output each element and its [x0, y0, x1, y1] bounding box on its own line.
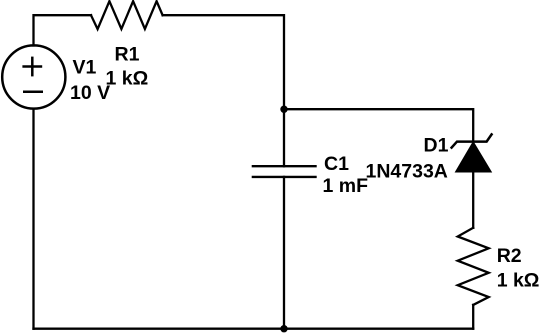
- svg-text:V1: V1: [73, 56, 97, 78]
- svg-text:D1: D1: [424, 135, 449, 157]
- resistor R1: [91, 1, 163, 29]
- svg-text:1 kΩ: 1 kΩ: [106, 67, 149, 89]
- node junction dot bottom: [280, 325, 287, 332]
- wire top rail left from source to R1: [34, 15, 92, 45]
- svg-text:1N4733A: 1N4733A: [366, 160, 448, 182]
- svg-text:R2: R2: [497, 245, 522, 267]
- capacitor C1: [252, 166, 317, 177]
- wire top rail from R1 to top-right corner: [163, 15, 284, 166]
- svg-text:C1: C1: [324, 153, 349, 175]
- zener diode D1: [452, 134, 492, 171]
- wire from R2 to bottom rail: [472, 305, 474, 329]
- voltage source V1: [2, 45, 65, 108]
- resistor R2: [458, 228, 489, 305]
- svg-text:1 mF: 1 mF: [323, 175, 369, 197]
- wire middle horizontal from node to D1 branch: [284, 109, 473, 141]
- wire bottom rail: [34, 328, 474, 330]
- svg-text:10 V: 10 V: [70, 82, 110, 104]
- wire left rail from source bottom to bottom-left corner: [32, 109, 34, 329]
- svg-text:1 kΩ: 1 kΩ: [497, 269, 540, 291]
- node junction dot top: [280, 106, 287, 113]
- wire from C1 bottom to bottom rail: [283, 177, 285, 329]
- svg-text:R1: R1: [115, 44, 140, 66]
- wire from D1 anode to R2: [472, 172, 474, 228]
